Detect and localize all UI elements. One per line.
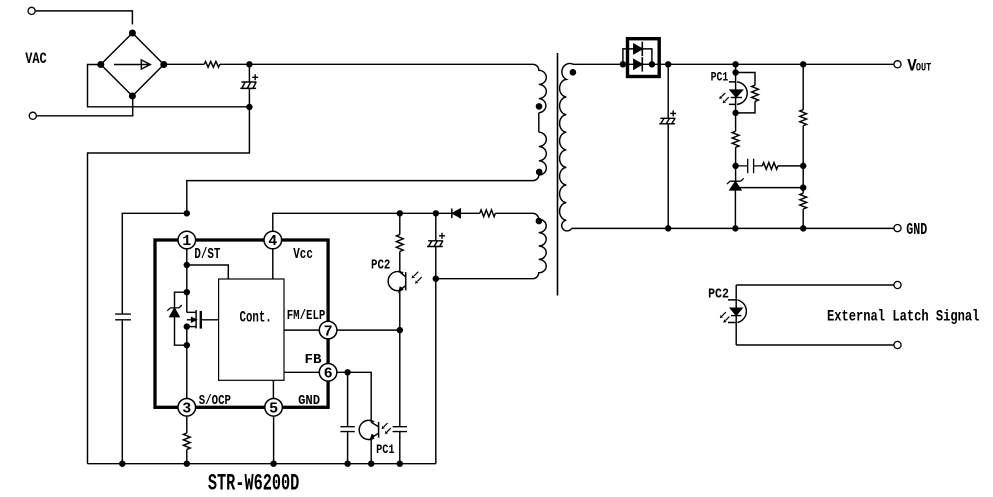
wire zener branch top <box>175 292 187 308</box>
wire zener branch bottom <box>175 317 187 346</box>
terminal GND <box>894 225 901 232</box>
resistor R4 OCP <box>183 433 190 449</box>
wire pin4 to Cont <box>272 249 274 279</box>
node GND rail x803.2 <box>801 226 806 231</box>
wire pin5 to ground <box>273 416 275 464</box>
node RC branch left <box>733 163 738 168</box>
node C3 top <box>433 211 438 216</box>
svg-text:D/ST: D/ST <box>194 247 220 263</box>
node bridge left <box>98 62 104 68</box>
svg-text:STR-W6200D: STR-W6200D <box>208 470 299 497</box>
wire R4 to ground <box>186 449 188 463</box>
svg-text:FM/ELP: FM/ELP <box>287 308 326 324</box>
wire primary bottom to D/ST <box>187 181 533 214</box>
node divider ref <box>801 185 806 190</box>
svg-text:Cont.: Cont. <box>240 309 272 327</box>
pin 5 <box>265 399 283 418</box>
node ground rail x371.2 <box>369 461 374 466</box>
transformer secondary winding <box>560 63 623 230</box>
capacitor C6 FM/ELP filter <box>393 330 407 464</box>
polarity dot secondary <box>570 70 575 75</box>
capacitor C1 bulk electrolytic <box>240 64 258 107</box>
capacitor C4 output electrolytic <box>659 64 676 228</box>
node ground rail x347.6 <box>345 461 350 466</box>
wire negative rail Z-path to primary ground <box>88 107 250 464</box>
resistor R3 PC2 collector <box>396 235 403 252</box>
capacitor C7 phase comp <box>736 159 763 173</box>
wire pin7 to PC2 emitter line <box>337 329 400 331</box>
node pin1 junction <box>184 211 189 216</box>
svg-text:External Latch Signal: External Latch Signal <box>827 308 979 326</box>
node PC1 parallel top <box>733 70 738 75</box>
capacitor C3 Vcc electrolytic <box>427 213 445 278</box>
wire source to pin3 <box>186 327 188 399</box>
MOSFET Q internal <box>187 310 219 329</box>
wire C3 bottom to ground rail <box>435 279 437 464</box>
node C5 branch <box>345 370 350 375</box>
polarity dot auxiliary <box>536 218 541 223</box>
wire VAC top to bridge <box>35 11 132 25</box>
wire latch bottom <box>736 344 894 346</box>
svg-text:1: 1 <box>182 233 191 250</box>
diode bridge DB1 <box>101 33 164 96</box>
wire GND rail <box>572 227 894 229</box>
wire primary ground rail <box>88 463 436 465</box>
resistor R7 phase comp <box>762 163 803 170</box>
svg-text:S/OCP: S/OCP <box>199 393 231 409</box>
resistor R1 input <box>204 61 220 67</box>
optocoupler LED PC1 <box>719 82 747 105</box>
wire DC+ rail to primary winding <box>220 63 533 65</box>
svg-text:VAC: VAC <box>25 50 47 68</box>
wire PC1 branch <box>735 64 737 113</box>
terminal latch bottom <box>894 341 901 348</box>
wire bridge right to resistor <box>164 63 204 65</box>
wire Vout rail <box>668 63 894 65</box>
svg-text:GND: GND <box>906 221 927 240</box>
wire pin1 to drain node <box>186 249 188 312</box>
wire bridge left to negative Z-path <box>88 65 250 107</box>
phototransistor PC2 <box>388 252 422 331</box>
pin 1 <box>178 231 196 250</box>
resistor R5 PC1 parallel <box>752 85 759 101</box>
node C3 bottom aux junction <box>433 276 438 281</box>
wire auxiliary bottom to primary ground <box>436 278 533 280</box>
wire PC1 parallel resistor branch <box>736 73 755 113</box>
node ground rail x399.8 <box>397 461 402 466</box>
resistor R6 PC1 series <box>732 113 739 166</box>
polarity dot primary upper <box>536 104 541 109</box>
label Vout <box>907 57 931 77</box>
node bridge bottom <box>130 93 136 99</box>
resistor R8 divider top <box>800 64 807 193</box>
polarity dot primary lower <box>537 169 542 174</box>
node ground rail x273.6 <box>271 461 276 466</box>
node pin7 junction <box>397 328 402 333</box>
transformer core <box>557 53 559 296</box>
svg-text:PC2: PC2 <box>708 286 729 302</box>
wire VAC bottom to bridge <box>36 96 132 116</box>
pin 6 <box>319 364 337 383</box>
transformer primary winding upper section <box>533 64 546 112</box>
transformer auxiliary winding <box>533 213 546 278</box>
zener diode avalanche <box>167 305 181 317</box>
node PC2 branch <box>397 211 402 216</box>
wire Cont to pin7 FM/ELP <box>284 329 319 331</box>
resistor R2 Vcc series <box>480 210 496 217</box>
wire Vcc pin4 rail <box>273 213 533 231</box>
svg-text:6: 6 <box>324 366 333 383</box>
wire drain node to Cont top <box>187 265 229 279</box>
node ground rail x122.3 <box>120 461 125 466</box>
terminal VAC top <box>28 7 35 14</box>
resistor R9 divider bottom <box>800 193 807 228</box>
svg-text:FB: FB <box>305 352 323 368</box>
controller block Cont. <box>219 279 284 380</box>
svg-text:4: 4 <box>268 233 277 250</box>
node D/ST internal <box>184 263 189 268</box>
wire pin3 to R4 <box>186 416 188 433</box>
IC STR-W6200D outline <box>155 240 328 407</box>
node divider top <box>801 62 806 67</box>
terminal Vout <box>894 61 901 68</box>
node GND rail x668.2 <box>666 226 671 231</box>
wire latch top <box>736 284 894 286</box>
wire Cont to pin5 <box>272 380 274 398</box>
capacitor C5 FB filter <box>340 372 354 463</box>
wire zener ref to divider <box>735 187 803 189</box>
dual diode rectifier D2 box <box>628 39 660 77</box>
svg-text:3: 3 <box>182 401 191 418</box>
node C1 bottom <box>247 105 252 110</box>
phototransistor PC1 <box>359 420 391 463</box>
node rectifier input <box>620 62 625 67</box>
svg-text:PC1: PC1 <box>711 70 729 85</box>
svg-text:PC1: PC1 <box>376 442 395 457</box>
pin 4 <box>264 231 282 250</box>
pin 7 <box>319 321 337 340</box>
wire primary winding mid link <box>538 113 540 133</box>
node C4 top <box>666 62 671 67</box>
svg-text:5: 5 <box>269 401 278 418</box>
node zener bottom junction <box>184 343 189 348</box>
svg-text:Vcc: Vcc <box>293 247 313 263</box>
wire zener feed <box>735 166 737 181</box>
wire zener to GND rail <box>734 190 736 229</box>
node rectifier output internal <box>649 62 654 67</box>
node C1 top <box>247 62 252 67</box>
svg-text:GND: GND <box>298 393 320 409</box>
terminal latch top <box>894 281 901 288</box>
optocoupler LED PC2 external latch <box>720 285 747 345</box>
diode D1 Vcc rectifier <box>452 209 461 219</box>
dual diode rectifier internals <box>623 42 668 72</box>
pin 3 <box>178 399 196 418</box>
svg-text:OUT: OUT <box>916 63 932 75</box>
terminal VAC bottom <box>29 112 36 119</box>
svg-text:PC2: PC2 <box>371 257 390 273</box>
node bridge top <box>130 30 136 36</box>
zener diode shunt regulator <box>727 178 744 190</box>
node zener top <box>184 290 189 295</box>
node GND rail x735.4 <box>733 226 738 231</box>
transformer primary winding lower section <box>533 132 546 180</box>
node PC1 branch top <box>733 62 738 67</box>
svg-text:7: 7 <box>324 323 333 340</box>
node bridge right <box>161 62 167 68</box>
node source <box>184 324 189 329</box>
node ground rail x186.8 <box>184 461 189 466</box>
capacitor C2 snubber <box>115 314 131 320</box>
wire pin6 FB <box>337 372 371 422</box>
wire PC2 collector feed <box>399 213 401 234</box>
node RC branch right <box>801 163 806 168</box>
node PC1 parallel bottom <box>733 110 738 115</box>
wire D/ST snubber branch <box>122 213 187 463</box>
wire Cont to pin6 FB <box>284 371 319 373</box>
